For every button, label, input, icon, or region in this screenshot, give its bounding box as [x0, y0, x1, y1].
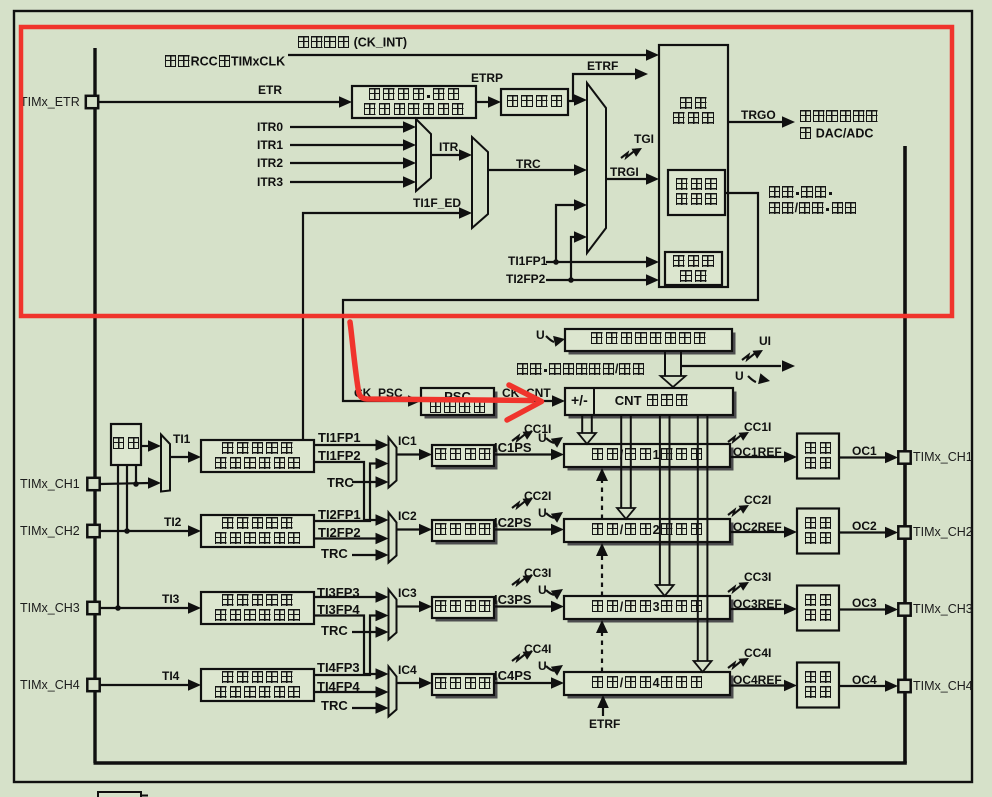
wire CH3 pin	[100, 602, 201, 614]
label TI3FP3	[317, 586, 360, 599]
label U cnt	[735, 370, 744, 383]
pin TIMx_CH3 right	[898, 603, 910, 615]
squiggle CC1I left	[512, 431, 533, 441]
label CC4I left	[524, 643, 551, 656]
pin TIMx_CH4	[87, 679, 99, 691]
box output control 2	[797, 509, 839, 554]
box input filter edge detector 4	[201, 669, 314, 701]
legend box	[98, 792, 148, 797]
label TRC top	[516, 158, 541, 171]
label CC2I right	[744, 494, 771, 507]
wire ITR1	[290, 139, 416, 151]
icon U event IC2PS	[546, 512, 563, 523]
wire update event	[681, 360, 795, 372]
label OC4REF	[733, 674, 782, 687]
label ITR0	[257, 121, 283, 134]
icon U event reload	[546, 336, 565, 347]
stub XOR to CH2	[124, 465, 130, 534]
label plus minus	[571, 394, 588, 407]
label TRC ch1	[327, 476, 354, 489]
text input filter edge detector 3	[201, 593, 314, 623]
wire TRC ch4	[352, 702, 389, 714]
mux trigger select	[587, 83, 606, 253]
wire IC3	[397, 601, 433, 613]
label ETRP	[471, 72, 503, 85]
wire IC3PS	[494, 601, 564, 613]
label UI	[759, 335, 771, 348]
divider CNT box	[593, 388, 595, 415]
mux TI1 select	[161, 435, 170, 492]
label ETRF bottom	[589, 718, 620, 731]
red annotation arrow	[350, 322, 542, 420]
wire OC2	[839, 527, 898, 539]
wire IC1PS	[494, 449, 564, 461]
label TI2	[164, 516, 181, 529]
text output control 3	[797, 589, 839, 627]
label TI3FP4	[317, 603, 360, 616]
text PSC	[421, 390, 494, 402]
label TI2FP2	[318, 526, 361, 539]
pin TIMx_CH2	[87, 525, 99, 537]
label TI1FP2	[318, 449, 361, 462]
box trigger controller	[659, 45, 728, 287]
wire CH2 pin	[100, 525, 201, 537]
label ITR	[439, 141, 458, 154]
label TRGO	[741, 109, 776, 122]
text auto reload register	[565, 331, 732, 347]
label U reload	[536, 329, 545, 342]
wire TI2FP2 riser	[571, 231, 587, 280]
wire TI2FP2	[546, 274, 659, 286]
text CNT counter	[591, 392, 713, 408]
text capture compare 1 register	[564, 447, 730, 463]
hollow arrow CNT to capture 2	[617, 415, 635, 519]
wire TRC ch1	[352, 476, 389, 488]
wire IC1	[397, 449, 433, 461]
box capture/compare 3 register	[564, 596, 734, 623]
left pin bus	[93, 48, 96, 763]
label OC3	[852, 597, 877, 610]
label CC4I right	[744, 647, 771, 660]
mux IC4 select	[389, 667, 397, 717]
wire XOR to TI1 mux	[141, 440, 161, 452]
wire OC3	[839, 604, 898, 616]
wire TI1FP2 cross down	[314, 462, 389, 526]
label IC4PS	[494, 669, 532, 682]
hollow arrow CNT to capture 3	[656, 415, 674, 596]
label ETRF	[587, 60, 618, 73]
squiggle UI	[742, 350, 763, 360]
label TI2FP2 top	[506, 273, 545, 286]
label 停止清除或向上向下	[516, 361, 645, 376]
label OC4	[852, 674, 877, 687]
wire IC4PS	[494, 677, 564, 689]
label TI2FP1	[318, 508, 361, 521]
text capture compare 2 register	[564, 522, 730, 538]
box output control 4	[797, 663, 839, 708]
label TRC ch2	[321, 547, 348, 560]
box output control 3	[797, 586, 839, 631]
text encoder interface	[665, 255, 722, 283]
label OC1	[852, 445, 877, 458]
text output control 2	[797, 512, 839, 550]
text input filter edge detector 1	[201, 441, 314, 471]
text PSC prescaler	[421, 402, 494, 414]
text trigger controller	[659, 96, 728, 126]
pin TIMx_CH2 right	[898, 526, 910, 538]
box encoder interface	[665, 252, 722, 285]
label 内部时钟 CK_INT	[297, 36, 407, 50]
squiggle TGI	[621, 148, 642, 158]
red annotation rectangle	[21, 27, 952, 316]
wire OC3REF	[730, 603, 797, 615]
wire TI1F_ED	[303, 207, 472, 439]
wire TI2FP2 ch2	[314, 533, 389, 545]
label 复位使能	[768, 184, 833, 199]
hollow arrow CNT to capture 4	[694, 415, 712, 672]
squiggle CC2I left	[512, 498, 533, 508]
text prescaler 2	[432, 521, 494, 539]
mux TRC select	[472, 137, 488, 228]
text prescaler 3	[432, 598, 494, 616]
label TIMx_CH4 right	[913, 680, 973, 693]
label IC1	[398, 435, 417, 448]
label 至DAC/ADC	[799, 127, 873, 141]
box capture/compare 1 register	[564, 444, 734, 471]
label IC4	[398, 664, 417, 677]
icon U event IC4PS	[546, 665, 563, 676]
wire TRC ch2	[352, 549, 389, 561]
wire TI1FP1 ch1	[314, 439, 389, 451]
box auto-reload register	[565, 329, 736, 355]
squiggle CC4I left	[512, 651, 533, 661]
wire TI3FP4 cross down	[314, 616, 389, 680]
label TIMx_CH3 right	[913, 603, 973, 616]
mux IC1 select	[389, 438, 397, 488]
wire ITR2	[290, 157, 416, 169]
label TIMx_CH1 left	[20, 478, 80, 491]
text slave mode controller	[668, 174, 725, 210]
wire TRC ch3	[352, 626, 389, 638]
label OC3REF	[733, 598, 782, 611]
squiggle CC4I right	[728, 658, 749, 668]
box input filter edge detector 1	[201, 440, 314, 472]
box CNT counter	[565, 388, 737, 419]
box PSC prescaler	[421, 388, 498, 419]
hollow arrow reload to CNT	[661, 351, 686, 387]
label IC3	[398, 587, 417, 600]
label 来自RCC的TIMxCLK	[164, 55, 285, 69]
hollow arrow CNT to capture 1	[578, 415, 596, 444]
wire ETRF to capture4	[597, 695, 609, 716]
bottom bus	[94, 761, 907, 765]
label ITR3	[257, 176, 283, 189]
label TIMx_CH1 right	[913, 451, 973, 464]
label IC2PS	[494, 516, 532, 529]
box capture/compare 2 register	[564, 519, 734, 546]
dashed arrow capture4 to capture3	[596, 620, 608, 672]
text polarity select edge detect prescaler	[352, 88, 476, 116]
wire ETRF to trigger controller	[568, 68, 648, 101]
mux IC3 select	[389, 590, 397, 640]
text input filter ETR	[501, 91, 568, 113]
box output control 1	[797, 434, 839, 479]
label U IC4	[538, 660, 547, 673]
wire ETRF to trigger mux	[573, 94, 587, 106]
label TIMx_CH4 left	[20, 679, 80, 692]
wire CH1 pin	[100, 477, 161, 489]
label ITR1	[257, 139, 283, 152]
icon U event IC1PS	[546, 437, 563, 448]
label U IC3	[538, 584, 547, 597]
mux ITR select	[416, 119, 431, 191]
pin TIMx_CH3	[87, 602, 99, 614]
box capture/compare 4 register	[564, 672, 734, 699]
box prescaler 2	[432, 520, 498, 545]
label TIMx_CH2 left	[20, 525, 80, 538]
wire TI3FP3 ch3	[314, 591, 389, 603]
stub XOR to CH3	[115, 465, 121, 611]
label CK_CNT	[502, 387, 551, 400]
box polarity select edge detect prescaler	[352, 86, 476, 118]
box prescaler 1	[432, 445, 498, 470]
squiggle CC1I right	[728, 432, 749, 442]
wire ETRP	[476, 96, 501, 108]
box slave mode controller	[668, 170, 725, 215]
label ETR	[258, 84, 282, 97]
text prescaler 4	[432, 675, 494, 693]
pin TIMx_CH4 right	[898, 680, 910, 692]
wire TI1FP1 riser	[556, 199, 587, 262]
wire IC2PS	[494, 524, 564, 536]
label TI1F_ED	[413, 197, 461, 210]
label TI3	[162, 593, 179, 606]
label TI4FP4	[317, 680, 360, 693]
label TRC ch4	[321, 699, 348, 712]
label CC2I left	[524, 490, 551, 503]
label IC2	[398, 510, 417, 523]
squiggle CC3I right	[728, 582, 749, 592]
label OC2	[852, 520, 877, 533]
label U IC1	[538, 432, 547, 445]
wire TRGO	[728, 116, 795, 128]
text input filter edge detector 2	[201, 516, 314, 546]
wire ETR	[99, 96, 353, 108]
wire TI4FP3 cross up	[314, 610, 389, 675]
wire OC1	[839, 452, 898, 464]
wire CK_CNT	[494, 395, 565, 407]
icon U event cnt	[748, 373, 770, 384]
wire slave ctrl CK_PSC	[343, 193, 758, 407]
text output control 4	[797, 666, 839, 704]
label TI1FP1	[318, 431, 361, 444]
wire TI4FP4 ch4	[314, 686, 389, 698]
label TI4	[162, 670, 179, 683]
icon U event IC3PS	[546, 589, 563, 600]
text capture compare 4 register	[564, 675, 730, 691]
label IC1PS	[494, 441, 532, 454]
wire CK_INT	[288, 49, 659, 61]
text capture compare 3 register	[564, 599, 730, 615]
label OC2REF	[733, 521, 782, 534]
pin TIMx_ETR	[86, 96, 98, 108]
label CC1I right	[744, 421, 771, 434]
mux IC2 select	[389, 513, 397, 563]
wire OC4	[839, 680, 898, 692]
label CC3I left	[524, 567, 551, 580]
label TI1FP1 top	[508, 255, 547, 268]
text XOR	[111, 436, 141, 452]
wire CH4 pin	[100, 679, 201, 691]
box input filter edge detector 3	[201, 592, 314, 624]
wire ITR3	[290, 176, 416, 188]
wire IC4	[397, 677, 433, 689]
label TIMx_CH3 left	[20, 602, 80, 615]
dashed arrow capture3 to capture2	[596, 543, 608, 596]
dashed arrow capture2 to capture1	[596, 468, 608, 519]
text output control 1	[797, 437, 839, 475]
squiggle CC2I right	[728, 505, 749, 515]
label TIMx_CH2 right	[913, 526, 973, 539]
box prescaler 3	[432, 597, 498, 622]
label 向上向下计数	[768, 200, 857, 215]
label CK_PSC	[354, 387, 403, 400]
label OC1REF	[733, 446, 782, 459]
wire TI1	[170, 451, 201, 463]
box XOR	[111, 424, 141, 465]
wire ITR	[431, 149, 472, 161]
wire IC2	[397, 524, 433, 536]
label 至其它定时器	[799, 110, 879, 124]
wire TRC top	[488, 164, 587, 176]
wire TRGI	[606, 173, 659, 185]
pin TIMx_CH1	[87, 478, 99, 490]
label CC3I right	[744, 571, 771, 584]
label TGI	[634, 133, 654, 146]
text prescaler 1	[432, 446, 494, 464]
label TIMx_ETR	[20, 96, 80, 109]
wire TI1FP1	[546, 256, 659, 268]
label IC3PS	[494, 593, 532, 606]
wire TI2FP1 cross up	[314, 458, 389, 521]
wire OC2REF	[730, 526, 797, 538]
label CC1I left	[524, 423, 551, 436]
box prescaler 4	[432, 674, 498, 699]
box input filter ETR	[501, 89, 568, 115]
wire OC4REF	[730, 680, 797, 692]
stub XOR to CH1	[133, 465, 139, 487]
right pin bus	[903, 146, 907, 763]
squiggle CC3I left	[512, 575, 533, 585]
pin TIMx_CH1 right	[898, 451, 910, 463]
label TRC ch3	[321, 624, 348, 637]
label ITR2	[257, 157, 283, 170]
wire ITR0	[290, 121, 416, 133]
wire OC1REF	[730, 451, 797, 463]
label TI4FP3	[317, 661, 360, 674]
label U IC2	[538, 507, 547, 520]
label TI1	[173, 433, 190, 446]
text input filter edge detector 4	[201, 670, 314, 700]
box input filter edge detector 2	[201, 515, 314, 547]
label TRGI	[610, 166, 639, 179]
